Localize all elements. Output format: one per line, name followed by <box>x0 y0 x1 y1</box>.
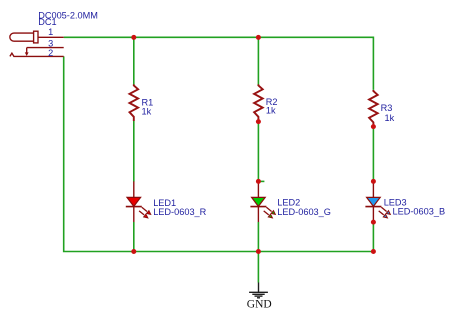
wire: R2 column top <box>257 37 259 84</box>
LED2 (green) <box>250 181 275 222</box>
junction dot: LED3 cathode <box>371 220 376 225</box>
wire: R1 to LED1 <box>133 121 135 182</box>
wire: R3 to LED3 <box>372 127 374 182</box>
wire: LED2 to bottom rail <box>257 222 259 252</box>
LED1 (red) <box>126 181 151 222</box>
junction dot: bottom rail / LED3 <box>371 249 376 254</box>
svg-text:R3: R3 <box>381 103 393 113</box>
svg-text:3: 3 <box>48 39 53 49</box>
junction dot: LED3 anode <box>371 179 376 184</box>
DC1 pin 3 with switch arrow <box>25 48 64 56</box>
svg-text:LED-0603_R: LED-0603_R <box>153 207 206 217</box>
resistor R2 <box>254 84 263 121</box>
svg-text:1k: 1k <box>266 106 276 116</box>
wire: GND stub <box>257 252 259 283</box>
junction dot: bottom rail / GND <box>256 249 261 254</box>
junction dot: top rail / R2 <box>256 35 261 40</box>
svg-text:1k: 1k <box>142 107 152 117</box>
wire: LED3 to bottom rail <box>372 222 374 252</box>
wire: left drop from DC1 pin2 and bottom rail <box>64 56 374 251</box>
wire: R2 to LED2 <box>257 121 259 181</box>
svg-text:LED-0603_B: LED-0603_B <box>393 206 446 216</box>
svg-text:1: 1 <box>48 27 53 37</box>
svg-text:GND: GND <box>247 298 272 310</box>
junction dot: bottom rail / LED1 <box>131 249 136 254</box>
wire: LED1 to bottom rail <box>133 222 135 252</box>
junction dot: top rail / R1 <box>131 35 136 40</box>
svg-text:2: 2 <box>48 48 53 58</box>
connector DC1 barrel jack body <box>10 31 38 43</box>
wire: top rail from DC1 pin1 to R3 column <box>64 37 374 90</box>
resistor R1 <box>130 84 139 121</box>
svg-text:1k: 1k <box>385 113 395 123</box>
DC1 pin 2 with detent caret <box>10 53 64 56</box>
svg-text:LED-0603_G: LED-0603_G <box>277 207 331 217</box>
wire: LED2 stub right <box>258 180 264 182</box>
junction dot: LED2 anode <box>256 179 261 184</box>
LED3 (blue) <box>365 181 390 222</box>
wire: R1 column top <box>133 37 135 84</box>
DC1 pin 1 <box>38 36 64 38</box>
junction dot: R2 bottom <box>256 119 261 124</box>
svg-text:DC1: DC1 <box>38 17 56 27</box>
ground GND symbol <box>249 283 268 298</box>
junction dot: R3 bottom <box>371 124 376 129</box>
resistor R3 <box>369 90 378 127</box>
